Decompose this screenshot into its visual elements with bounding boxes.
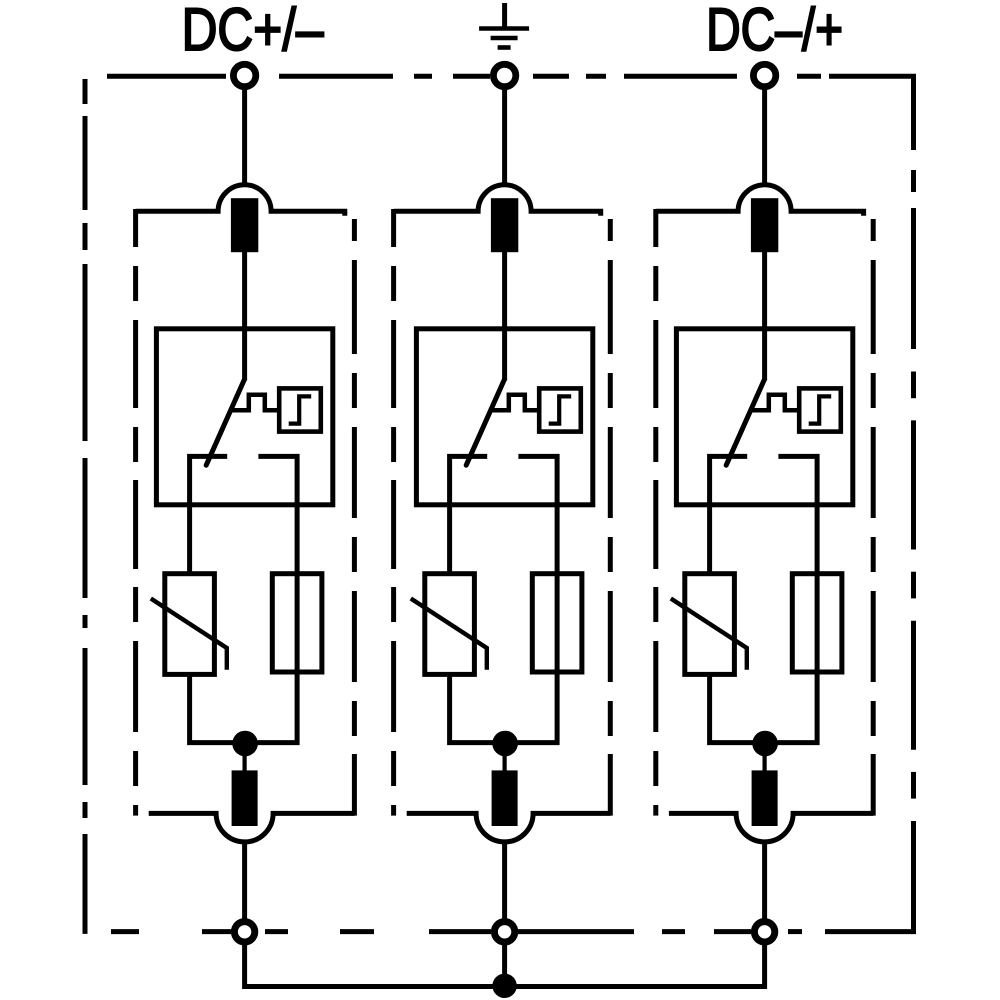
bottom plug-in contact 2 (black blade)	[492, 770, 518, 826]
wire terminal 2 to top plug contact	[502, 89, 507, 188]
enclosure outline right edge (dashed)	[911, 74, 916, 934]
module 1 box right edge (dashed)	[352, 219, 357, 816]
enclosure outline left edge (dashed)	[83, 79, 88, 934]
wire node 1 to bottom plug contact	[243, 750, 247, 772]
switch blade 2	[466, 379, 504, 465]
module 3 box bottom edge with plug-in arch	[669, 813, 873, 842]
varistor RV1 body	[165, 574, 215, 675]
module 3 box left edge (dashed)	[653, 209, 658, 816]
fixed contact 2 (left bracket)	[450, 456, 488, 504]
top plug-in contact 1 (black blade)	[231, 198, 258, 252]
module 2 box left edge (dashed)	[391, 209, 396, 816]
wire terminal 3 to top plug contact	[762, 89, 767, 188]
monitoring device box 1	[279, 388, 321, 431]
module 1 box bottom edge with plug-in arch	[149, 813, 355, 842]
spark gap F3 body (rectangle)	[792, 574, 842, 672]
varistor RV3 body	[685, 574, 735, 675]
node 3 (junction dot)	[752, 731, 778, 757]
node 2 (junction dot)	[492, 731, 518, 757]
wire spark gap 2 to bottom node	[505, 672, 557, 743]
wire bottom contact 3 to bottom terminal	[762, 840, 767, 919]
wire varistor 2 to bottom node	[450, 674, 505, 742]
wire spark gap 1 to bottom node	[245, 672, 298, 743]
fixed contact 2 (right bracket)	[518, 456, 557, 504]
fixed contact 1 (left bracket)	[190, 456, 228, 504]
wire terminal 1 to top plug contact	[242, 89, 247, 188]
thermal trip link 3 (square-wave line)	[751, 395, 799, 411]
disconnector box U1 (SCI switch)	[156, 329, 332, 505]
spark gap F1 body (rectangle)	[272, 574, 322, 672]
module 1 box left edge (dashed)	[133, 209, 138, 816]
fixed contact 3 (left bracket)	[710, 456, 748, 504]
node collector (junction dot)	[492, 974, 516, 998]
terminal top 2 (PE)	[493, 64, 515, 86]
wire bottom contact 1 to bottom terminal	[242, 840, 247, 919]
top plug-in contact 3 (black blade)	[751, 198, 778, 252]
module 1 box top edge with plug-in arch	[136, 185, 345, 216]
spark gap F1 through-wire	[295, 574, 300, 672]
wire disconnector 3 to varistor	[707, 502, 712, 574]
node 1 (junction dot)	[232, 731, 258, 757]
wire node 3 to bottom plug contact	[762, 750, 766, 772]
module 2 box right edge (dashed)	[608, 219, 613, 816]
disconnector box U2 (SCI switch)	[416, 329, 592, 505]
wire bottom contact 2 to bottom terminal	[502, 840, 507, 919]
top bus DC+/- to DC-/+ (dashed enclosure top edge)	[107, 74, 916, 79]
varistor RV1 strike line	[151, 599, 227, 670]
step response symbol 3	[809, 396, 832, 423]
wire disconnector 3 to spark gap	[815, 502, 820, 576]
thermal trip link 2 (square-wave line)	[491, 395, 539, 411]
bottom plug-in contact 3 (black blade)	[752, 770, 778, 826]
spark gap F3 through-wire	[815, 574, 820, 672]
wire spark gap 3 to bottom node	[765, 672, 818, 743]
wire top contact 3 to disconnector	[762, 252, 767, 381]
wire varistor 3 to bottom node	[710, 674, 765, 742]
switch blade 3	[726, 379, 764, 465]
bottom bus (dashed enclosure bottom edge)	[111, 929, 916, 934]
module 3 box top edge with plug-in arch	[656, 185, 864, 216]
module 3 box right edge (dashed)	[871, 219, 876, 816]
step response symbol 1	[289, 396, 312, 423]
terminal bottom 1	[234, 922, 254, 942]
wire top contact 1 to disconnector	[242, 252, 247, 381]
disconnector box U3 (SCI switch)	[676, 329, 852, 505]
module 2 box bottom edge with plug-in arch	[407, 813, 611, 842]
wire disconnector 1 to varistor	[187, 502, 192, 574]
wire disconnector 2 to spark gap	[555, 502, 560, 576]
wire disconnector 1 to spark gap	[295, 502, 300, 576]
varistor RV3 strike line	[671, 599, 747, 670]
wire centre terminal to collector	[502, 944, 507, 987]
svg-text:DC–/+: DC–/+	[706, 0, 843, 63]
bottom plug-in contact 1 (black blade)	[232, 770, 258, 826]
fixed contact 1 (right bracket)	[258, 456, 297, 504]
terminal top 1 (DC+)	[233, 64, 255, 86]
spark gap F2 through-wire	[555, 574, 560, 672]
terminal top 3 (DC-)	[753, 64, 775, 86]
wire disconnector 2 to varistor	[447, 502, 452, 574]
wire bottom collector (links all three bottom terminals)	[245, 944, 765, 987]
thermal trip link 1 (square-wave line)	[231, 395, 279, 411]
step response symbol 2	[549, 396, 572, 423]
spark gap F2 body (rectangle)	[532, 574, 582, 672]
wire node 2 to bottom plug contact	[503, 750, 507, 772]
monitoring device box 2	[539, 388, 581, 431]
top plug-in contact 2 (black blade)	[491, 198, 518, 252]
terminal bottom 2	[494, 922, 514, 942]
wire top contact 2 to disconnector	[502, 252, 507, 381]
monitoring device box 3	[799, 388, 841, 431]
fixed contact 3 (right bracket)	[778, 456, 817, 504]
varistor RV2 body	[425, 574, 475, 675]
svg-text:DC+/–: DC+/–	[182, 0, 325, 63]
switch blade 1	[206, 379, 244, 465]
terminal bottom 3	[754, 922, 774, 942]
module 2 box top edge with plug-in arch	[394, 185, 601, 216]
wire varistor 1 to bottom node	[190, 674, 245, 742]
varistor RV2 strike line	[411, 599, 487, 670]
ground (PE earth symbol)	[479, 3, 529, 48]
